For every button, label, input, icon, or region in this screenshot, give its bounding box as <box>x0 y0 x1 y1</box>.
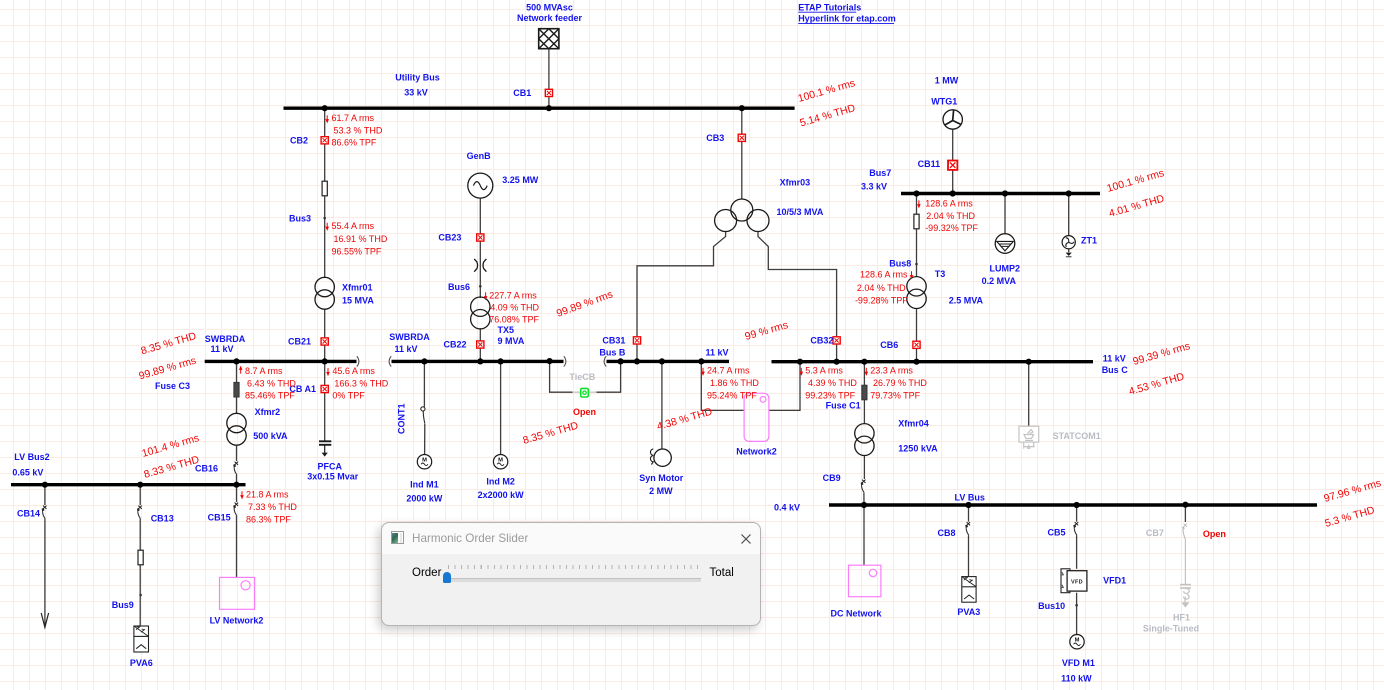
svg-text:TieCB: TieCB <box>569 372 595 382</box>
svg-text:1250 kVA: 1250 kVA <box>898 443 938 453</box>
svg-text:ZT1: ZT1 <box>1081 236 1097 246</box>
svg-text:Bus10: Bus10 <box>1038 601 1065 611</box>
svg-text:53.3 % THD: 53.3 % THD <box>334 125 383 135</box>
svg-text:0.4 kV: 0.4 kV <box>774 503 800 513</box>
svg-text:0.65 kV: 0.65 kV <box>12 468 43 478</box>
svg-text:T3: T3 <box>935 269 946 279</box>
svg-text:Open: Open <box>1203 529 1226 539</box>
svg-text:PVA3: PVA3 <box>957 607 980 617</box>
svg-text:Xfmr2: Xfmr2 <box>255 407 281 417</box>
svg-text:CB15: CB15 <box>208 512 231 522</box>
svg-text:Open: Open <box>573 407 596 417</box>
svg-text:CB9: CB9 <box>823 473 841 483</box>
svg-text:VFD: VFD <box>1071 579 1083 585</box>
svg-text:CB6: CB6 <box>880 340 898 350</box>
svg-text:Hyperlink for etap.com: Hyperlink for etap.com <box>798 14 896 24</box>
svg-text:96.55% TPF: 96.55% TPF <box>332 246 382 256</box>
svg-text:CB2: CB2 <box>290 136 308 146</box>
svg-text:Bus8: Bus8 <box>889 258 911 268</box>
svg-text:VFD1: VFD1 <box>1103 576 1126 586</box>
svg-text:DC Network: DC Network <box>830 608 882 618</box>
svg-text:500 kVA: 500 kVA <box>253 431 288 441</box>
svg-text:PFCA: PFCA <box>318 461 343 471</box>
svg-text:128.6 A rms: 128.6 A rms <box>860 269 908 279</box>
svg-text:Xfmr04: Xfmr04 <box>898 419 929 429</box>
svg-text:5.14 % THD: 5.14 % THD <box>799 102 857 129</box>
svg-text:Network feeder: Network feeder <box>517 13 583 23</box>
svg-text:11 kV: 11 kV <box>394 344 417 354</box>
svg-text:CB21: CB21 <box>288 337 311 347</box>
svg-text:0.2 MVA: 0.2 MVA <box>982 276 1017 286</box>
svg-text:4.39 % THD: 4.39 % THD <box>808 378 857 388</box>
svg-text:CB1: CB1 <box>513 88 531 98</box>
svg-text:95.24% TPF: 95.24% TPF <box>707 391 757 401</box>
svg-text:Network2: Network2 <box>736 447 777 457</box>
svg-text:11 kV: 11 kV <box>705 348 728 358</box>
svg-text:Xfmr03: Xfmr03 <box>780 178 811 188</box>
svg-text:110 kW: 110 kW <box>1061 674 1092 684</box>
svg-text:100.1 % rms: 100.1 % rms <box>797 77 857 105</box>
svg-text:GenB: GenB <box>467 151 492 161</box>
svg-text:85.46% TPF: 85.46% TPF <box>245 391 295 401</box>
svg-text:Ind M1: Ind M1 <box>410 480 439 490</box>
svg-text:CB31: CB31 <box>602 336 625 346</box>
svg-text:55.4 A rms: 55.4 A rms <box>332 221 375 231</box>
svg-text:6.43 % THD: 6.43 % THD <box>247 379 296 389</box>
svg-text:2x2000 kW: 2x2000 kW <box>478 490 525 500</box>
svg-text:3.25 MW: 3.25 MW <box>502 175 539 185</box>
svg-text:0% TPF: 0% TPF <box>332 391 365 401</box>
svg-text:33 kV: 33 kV <box>404 88 428 98</box>
svg-text:Bus C: Bus C <box>1102 365 1129 375</box>
svg-text:86.6% TPF: 86.6% TPF <box>332 138 377 148</box>
svg-text:1.86 % THD: 1.86 % THD <box>710 378 759 388</box>
svg-text:99.23% TPF: 99.23% TPF <box>805 391 855 401</box>
svg-text:CB13: CB13 <box>151 513 174 523</box>
svg-text:SWBRDA: SWBRDA <box>205 334 246 344</box>
svg-text:8.35 % THD: 8.35 % THD <box>522 420 580 447</box>
svg-text:5.3 A rms: 5.3 A rms <box>805 366 843 376</box>
svg-text:CONT1: CONT1 <box>397 403 407 434</box>
svg-text:PVA6: PVA6 <box>130 658 153 668</box>
svg-text:CB22: CB22 <box>443 340 466 350</box>
svg-text:CB32: CB32 <box>810 336 833 346</box>
svg-text:CB11: CB11 <box>918 159 941 169</box>
svg-text:5.3 % THD: 5.3 % THD <box>1324 504 1377 530</box>
svg-text:23.3 A rms: 23.3 A rms <box>870 366 913 376</box>
svg-text:99.89 % rms: 99.89 % rms <box>138 355 198 383</box>
svg-text:2 MW: 2 MW <box>649 486 673 496</box>
svg-text:LV Bus2: LV Bus2 <box>14 452 49 462</box>
svg-text:8.7 A rms: 8.7 A rms <box>245 366 283 376</box>
svg-text:128.6 A rms: 128.6 A rms <box>925 199 973 209</box>
svg-text:99.89 % rms: 99.89 % rms <box>555 288 615 319</box>
svg-text:STATCOM1: STATCOM1 <box>1053 431 1101 441</box>
svg-text:500 MVAsc: 500 MVAsc <box>526 2 573 12</box>
svg-text:Bus9: Bus9 <box>112 600 134 610</box>
svg-text:4.01 % THD: 4.01 % THD <box>1108 193 1166 220</box>
svg-text:CB5: CB5 <box>1047 528 1065 538</box>
svg-text:CB8: CB8 <box>937 528 955 538</box>
svg-text:Bus B: Bus B <box>599 348 626 358</box>
svg-text:8.35 % THD: 8.35 % THD <box>140 330 198 357</box>
svg-text:21.8 A rms: 21.8 A rms <box>246 489 289 499</box>
svg-text:TX5: TX5 <box>498 325 515 335</box>
svg-text:166.3 % THD: 166.3 % THD <box>334 379 388 389</box>
svg-text:11 kV: 11 kV <box>210 344 233 354</box>
svg-text:4.38 % THD: 4.38 % THD <box>656 406 714 433</box>
svg-text:Fuse C1: Fuse C1 <box>826 401 861 411</box>
svg-text:2.04 % THD: 2.04 % THD <box>926 211 975 221</box>
svg-text:CB3: CB3 <box>706 133 724 143</box>
svg-text:Utility Bus: Utility Bus <box>395 73 440 83</box>
svg-text:24.7 A rms: 24.7 A rms <box>707 366 750 376</box>
svg-text:CB14: CB14 <box>17 508 40 518</box>
svg-text:SWBRDA: SWBRDA <box>389 332 430 342</box>
svg-text:2000 kW: 2000 kW <box>406 493 443 503</box>
svg-text:11 kV: 11 kV <box>1103 354 1126 364</box>
svg-text:99 % rms: 99 % rms <box>744 319 790 343</box>
svg-text:LV Bus: LV Bus <box>955 492 985 502</box>
svg-text:Bus3: Bus3 <box>289 214 311 224</box>
svg-text:VFD M1: VFD M1 <box>1062 658 1095 668</box>
svg-text:WTG1: WTG1 <box>931 96 957 106</box>
svg-text:CB23: CB23 <box>438 233 461 243</box>
svg-text:7.33 % THD: 7.33 % THD <box>248 502 297 512</box>
svg-text:4.53 % THD: 4.53 % THD <box>1128 371 1186 398</box>
svg-text:4.09 % THD: 4.09 % THD <box>490 302 539 312</box>
svg-text:16.91 % THD: 16.91 % THD <box>334 234 388 244</box>
svg-text:9 MVA: 9 MVA <box>498 336 525 346</box>
svg-text:HF1: HF1 <box>1173 612 1190 622</box>
svg-text:1 MW: 1 MW <box>935 75 959 85</box>
svg-text:97.96 % rms: 97.96 % rms <box>1323 477 1383 505</box>
svg-text:Ind M2: Ind M2 <box>486 477 515 487</box>
svg-text:10/5/3 MVA: 10/5/3 MVA <box>777 207 824 217</box>
svg-text:Bus7: Bus7 <box>869 168 891 178</box>
svg-text:99.39 % rms: 99.39 % rms <box>1132 340 1192 368</box>
svg-text:CB7: CB7 <box>1146 528 1164 538</box>
svg-text:86.3% TPF: 86.3% TPF <box>246 514 291 524</box>
svg-text:3x0.15 Mvar: 3x0.15 Mvar <box>307 472 359 482</box>
svg-text:LV Network2: LV Network2 <box>210 615 264 625</box>
svg-text:-99.28% TPF: -99.28% TPF <box>855 295 908 305</box>
svg-text:Bus6: Bus6 <box>448 282 470 292</box>
svg-text:Xfmr01: Xfmr01 <box>342 283 373 293</box>
svg-text:2.04 % THD: 2.04 % THD <box>857 283 906 293</box>
svg-text:15 MVA: 15 MVA <box>342 295 374 305</box>
svg-text:Fuse C3: Fuse C3 <box>155 381 190 391</box>
svg-text:26.79 % THD: 26.79 % THD <box>873 378 927 388</box>
svg-text:-99.32% TPF: -99.32% TPF <box>925 223 978 233</box>
svg-text:2.5 MVA: 2.5 MVA <box>949 295 984 305</box>
svg-text:227.7 A rms: 227.7 A rms <box>489 290 537 300</box>
svg-text:45.6 A rms: 45.6 A rms <box>332 366 375 376</box>
svg-text:Single-Tuned: Single-Tuned <box>1143 624 1199 634</box>
svg-text:61.7 A rms: 61.7 A rms <box>332 113 375 123</box>
svg-text:Syn Motor: Syn Motor <box>639 473 683 483</box>
svg-text:100.1 % rms: 100.1 % rms <box>1106 167 1166 195</box>
svg-text:ETAP Tutorials: ETAP Tutorials <box>798 2 861 12</box>
svg-text:3.3 kV: 3.3 kV <box>861 181 887 191</box>
svg-text:79.73% TPF: 79.73% TPF <box>870 391 920 401</box>
svg-text:76.08% TPF: 76.08% TPF <box>489 314 539 324</box>
svg-text:LUMP2: LUMP2 <box>990 264 1021 274</box>
